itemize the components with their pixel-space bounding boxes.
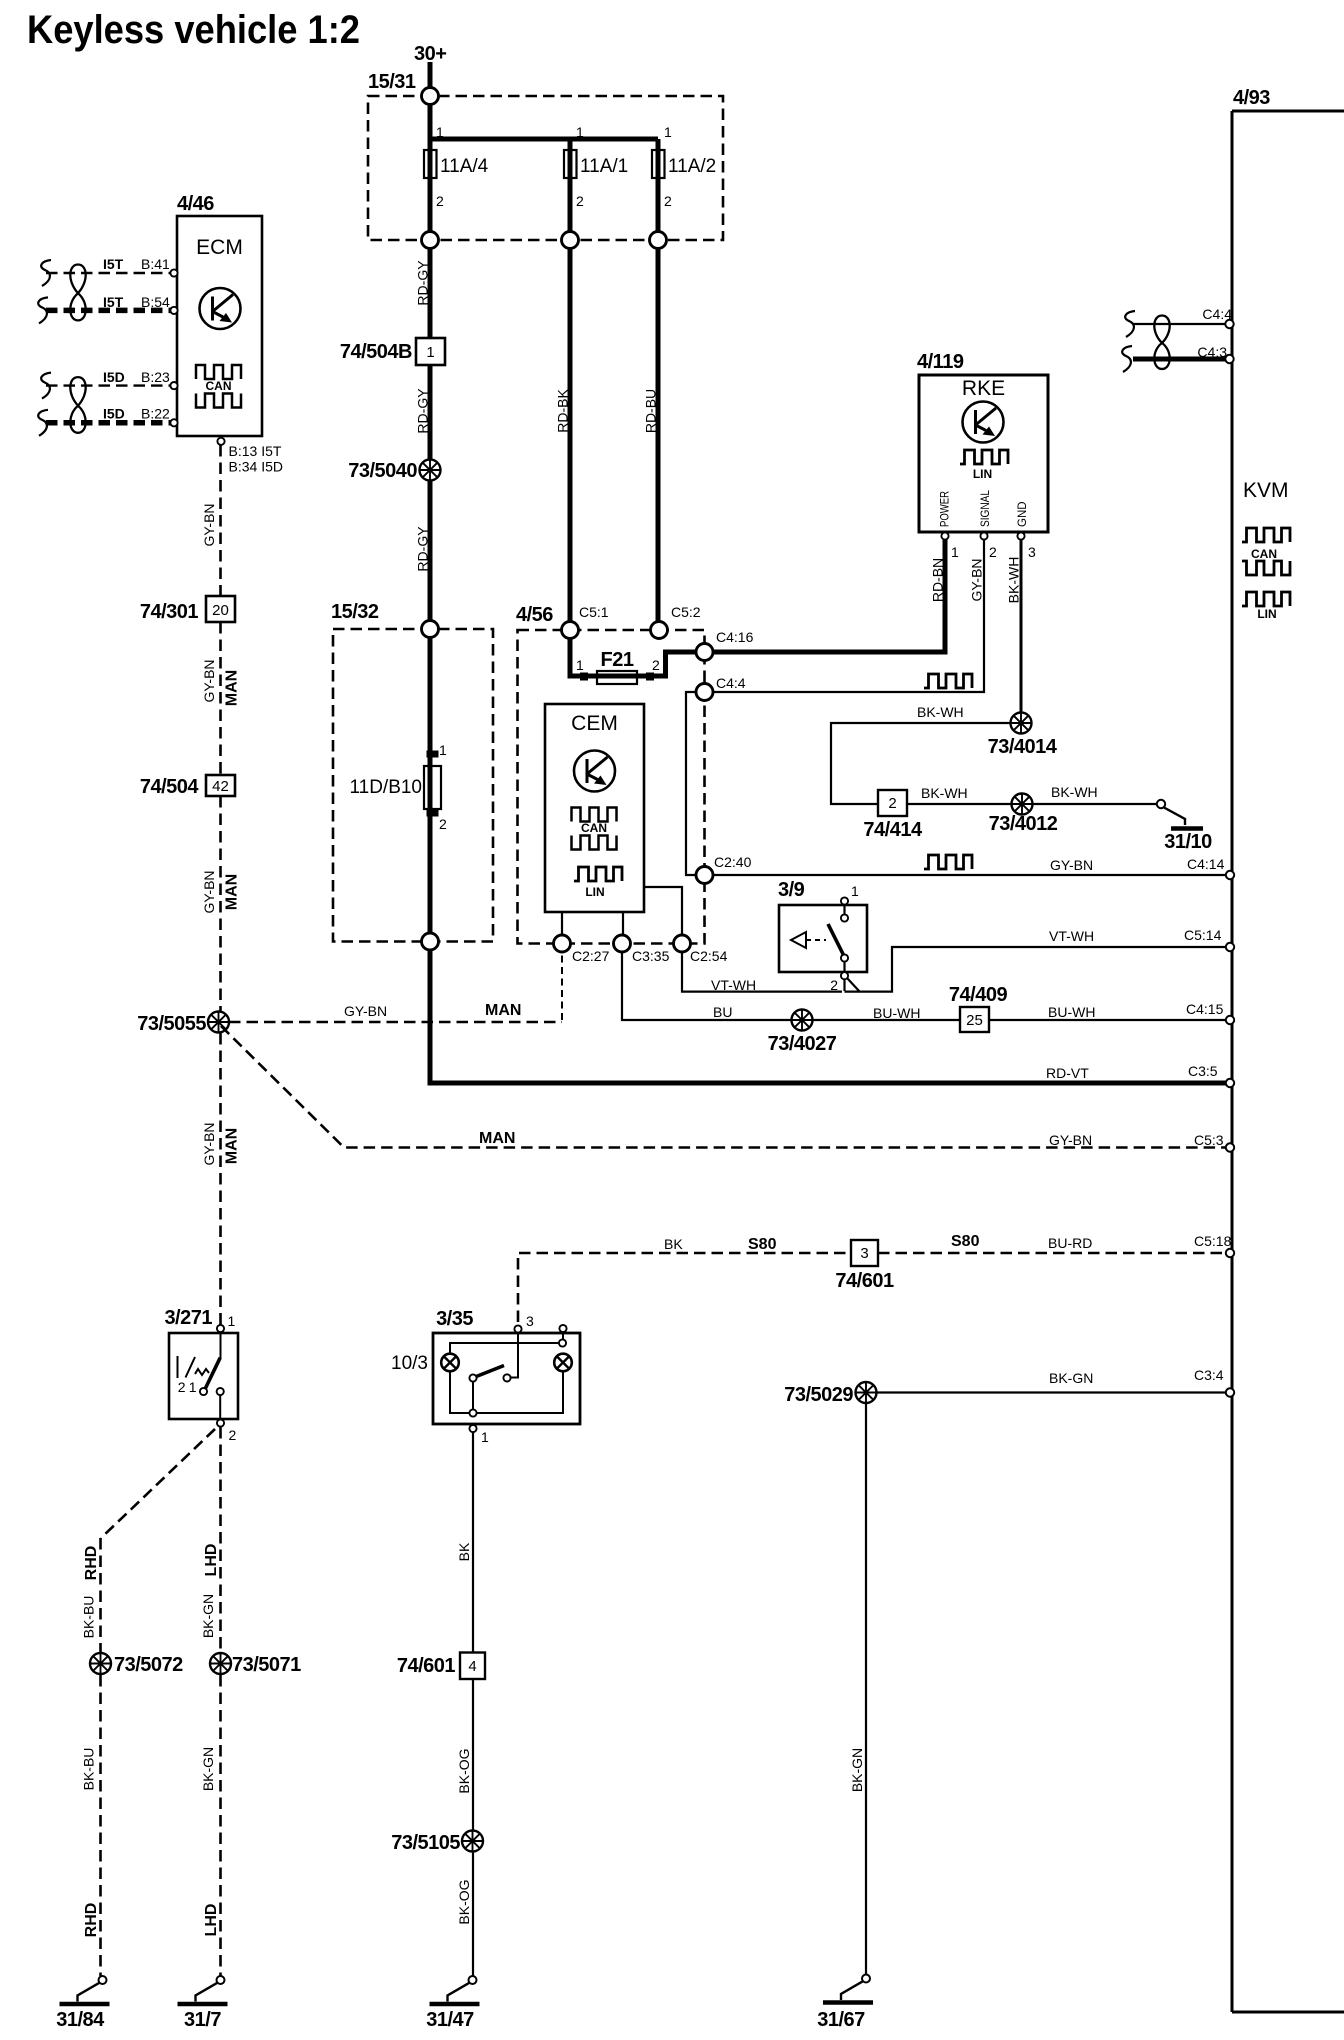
svg-text:I5T: I5T xyxy=(103,294,124,310)
svg-text:C4:14: C4:14 xyxy=(1187,856,1225,872)
svg-text:C5:14: C5:14 xyxy=(1184,927,1222,943)
svg-text:C4:15: C4:15 xyxy=(1186,1001,1224,1017)
svg-text:1: 1 xyxy=(481,1429,489,1445)
svg-text:10/3: 10/3 xyxy=(391,1353,428,1374)
svg-text:73/5055: 73/5055 xyxy=(137,1013,206,1035)
svg-text:POWER: POWER xyxy=(940,491,952,527)
svg-text:MAN: MAN xyxy=(224,874,241,910)
svg-text:C3:5: C3:5 xyxy=(1188,1063,1218,1079)
svg-text:RKE: RKE xyxy=(962,377,1005,400)
svg-text:1: 1 xyxy=(436,124,444,140)
svg-text:2: 2 xyxy=(888,795,896,812)
svg-text:CEM: CEM xyxy=(571,712,618,735)
svg-text:GY-BN: GY-BN xyxy=(1049,1132,1092,1148)
svg-text:3: 3 xyxy=(1028,544,1036,560)
svg-text:1: 1 xyxy=(664,124,672,140)
svg-text:73/5029: 73/5029 xyxy=(784,1384,853,1406)
svg-text:BK-WH: BK-WH xyxy=(1051,784,1098,800)
svg-text:2: 2 xyxy=(439,816,447,832)
svg-text:30+: 30+ xyxy=(414,43,446,65)
svg-text:I5D: I5D xyxy=(103,406,125,422)
svg-text:C3:4: C3:4 xyxy=(1194,1367,1224,1383)
svg-text:2: 2 xyxy=(229,1427,237,1443)
svg-text:4/46: 4/46 xyxy=(177,193,214,215)
svg-text:3/35: 3/35 xyxy=(436,1308,473,1330)
svg-text:MAN: MAN xyxy=(479,1130,515,1147)
svg-text:C4:3: C4:3 xyxy=(1197,344,1227,360)
svg-text:GY-BN: GY-BN xyxy=(969,558,985,601)
svg-text:4/56: 4/56 xyxy=(516,604,553,626)
svg-text:C3:35: C3:35 xyxy=(632,948,670,964)
svg-text:C2:40: C2:40 xyxy=(714,854,752,870)
svg-text:GND: GND xyxy=(1017,501,1029,527)
svg-text:Keyless vehicle 1:2: Keyless vehicle 1:2 xyxy=(27,8,360,52)
svg-text:BK-WH: BK-WH xyxy=(1006,557,1022,604)
svg-text:73/4027: 73/4027 xyxy=(768,1033,837,1055)
svg-text:1: 1 xyxy=(951,544,959,560)
svg-text:74/601: 74/601 xyxy=(397,1655,456,1677)
svg-text:BK: BK xyxy=(456,1542,472,1561)
svg-text:73/4014: 73/4014 xyxy=(988,736,1058,758)
svg-text:I5D: I5D xyxy=(103,369,125,385)
svg-text:BK-WH: BK-WH xyxy=(921,785,968,801)
svg-text:B:13 I5T: B:13 I5T xyxy=(229,443,282,459)
svg-text:CAN: CAN xyxy=(1251,547,1277,561)
svg-text:GY-BN: GY-BN xyxy=(344,1003,387,1019)
svg-text:BK-BU: BK-BU xyxy=(81,1596,97,1639)
svg-text:31/7: 31/7 xyxy=(184,2009,221,2031)
svg-text:BU-WH: BU-WH xyxy=(873,1005,920,1021)
svg-text:2: 2 xyxy=(436,193,444,209)
svg-text:2: 2 xyxy=(830,977,838,993)
svg-text:1: 1 xyxy=(228,1313,236,1329)
svg-text:1: 1 xyxy=(426,344,434,361)
svg-text:3/271: 3/271 xyxy=(164,1307,212,1329)
svg-text:MAN: MAN xyxy=(224,670,241,706)
svg-text:BK-GN: BK-GN xyxy=(849,1748,865,1792)
svg-text:GY-BN: GY-BN xyxy=(201,1122,217,1165)
svg-text:BK-GN: BK-GN xyxy=(200,1747,216,1791)
svg-text:RD-GY: RD-GY xyxy=(415,260,431,306)
svg-text:LHD: LHD xyxy=(203,1544,220,1577)
svg-text:74/601: 74/601 xyxy=(835,1270,894,1292)
svg-text:C4:16: C4:16 xyxy=(716,629,754,645)
svg-text:15/32: 15/32 xyxy=(331,601,379,623)
svg-text:LHD: LHD xyxy=(203,1904,220,1937)
svg-text:GY-BN: GY-BN xyxy=(1050,857,1093,873)
svg-text:C2:27: C2:27 xyxy=(572,948,610,964)
svg-text:11D/B10: 11D/B10 xyxy=(349,777,422,798)
svg-text:74/504: 74/504 xyxy=(140,776,200,798)
svg-text:4/119: 4/119 xyxy=(917,351,964,373)
svg-text:73/5040: 73/5040 xyxy=(348,460,417,482)
svg-text:3: 3 xyxy=(860,1245,868,1262)
svg-text:42: 42 xyxy=(212,778,229,795)
svg-text:B:34 I5D: B:34 I5D xyxy=(229,459,283,475)
svg-text:GY-BN: GY-BN xyxy=(201,870,217,913)
svg-text:MAN: MAN xyxy=(224,1128,241,1164)
svg-text:11A/1: 11A/1 xyxy=(580,156,628,177)
svg-text:LIN: LIN xyxy=(1257,607,1276,621)
svg-text:74/504B: 74/504B xyxy=(340,341,412,363)
svg-text:20: 20 xyxy=(212,602,229,619)
svg-text:2: 2 xyxy=(178,1379,186,1395)
svg-text:31/67: 31/67 xyxy=(817,2009,865,2031)
svg-text:73/5071: 73/5071 xyxy=(232,1654,301,1676)
svg-text:GY-BN: GY-BN xyxy=(201,503,217,546)
svg-text:74/301: 74/301 xyxy=(140,601,199,623)
svg-text:MAN: MAN xyxy=(485,1002,521,1019)
svg-text:C2:54: C2:54 xyxy=(690,948,728,964)
svg-text:ECM: ECM xyxy=(196,236,243,259)
svg-text:C5:2: C5:2 xyxy=(671,604,701,620)
svg-text:31/10: 31/10 xyxy=(1164,831,1212,853)
svg-text:B:23: B:23 xyxy=(141,369,170,385)
svg-text:RD-VT: RD-VT xyxy=(1046,1065,1089,1081)
svg-text:1: 1 xyxy=(576,124,584,140)
svg-text:1: 1 xyxy=(851,883,859,899)
svg-text:SIGNAL: SIGNAL xyxy=(980,489,992,527)
svg-text:BK-WH: BK-WH xyxy=(917,704,964,720)
svg-text:1: 1 xyxy=(576,657,584,673)
svg-text:2: 2 xyxy=(989,544,997,560)
svg-text:BK-GN: BK-GN xyxy=(200,1594,216,1638)
svg-text:B:22: B:22 xyxy=(141,406,170,422)
svg-text:KVM: KVM xyxy=(1243,479,1289,502)
svg-text:RD-BK: RD-BK xyxy=(555,389,571,433)
svg-text:C4:4: C4:4 xyxy=(1202,306,1232,322)
svg-text:73/5072: 73/5072 xyxy=(114,1654,183,1676)
svg-text:I5T: I5T xyxy=(103,256,124,272)
svg-text:BU-WH: BU-WH xyxy=(1048,1004,1095,1020)
svg-text:BK-OG: BK-OG xyxy=(456,1748,472,1793)
svg-text:74/414: 74/414 xyxy=(863,819,923,841)
svg-text:11A/4: 11A/4 xyxy=(440,156,489,177)
svg-text:F21: F21 xyxy=(601,649,634,671)
svg-text:74/409: 74/409 xyxy=(949,984,1008,1006)
svg-text:1: 1 xyxy=(189,1379,197,1395)
svg-text:73/5105: 73/5105 xyxy=(391,1832,460,1854)
svg-text:CAN: CAN xyxy=(581,821,607,835)
svg-text:3: 3 xyxy=(526,1313,534,1329)
svg-text:CAN: CAN xyxy=(206,379,232,393)
svg-text:C5:1: C5:1 xyxy=(579,604,609,620)
svg-text:RD-GY: RD-GY xyxy=(415,526,431,572)
svg-text:2: 2 xyxy=(652,657,660,673)
svg-text:BU-RD: BU-RD xyxy=(1048,1235,1092,1251)
svg-text:GY-BN: GY-BN xyxy=(201,659,217,702)
svg-text:25: 25 xyxy=(966,1012,983,1029)
svg-text:RHD: RHD xyxy=(83,1903,100,1938)
svg-text:BU: BU xyxy=(713,1004,732,1020)
svg-text:BK: BK xyxy=(664,1236,683,1252)
svg-text:LIN: LIN xyxy=(585,885,604,899)
svg-text:73/4012: 73/4012 xyxy=(989,813,1058,835)
svg-text:31/47: 31/47 xyxy=(426,2009,474,2031)
svg-text:3/9: 3/9 xyxy=(778,879,805,901)
svg-text:BK-OG: BK-OG xyxy=(456,1879,472,1924)
svg-text:S80: S80 xyxy=(951,1233,980,1250)
svg-text:B:54: B:54 xyxy=(141,294,170,310)
svg-text:2: 2 xyxy=(576,193,584,209)
svg-text:4: 4 xyxy=(468,1658,476,1675)
svg-text:C5:3: C5:3 xyxy=(1194,1132,1224,1148)
svg-text:S80: S80 xyxy=(748,1236,777,1253)
svg-text:BK-GN: BK-GN xyxy=(1049,1370,1093,1386)
svg-text:C4:4: C4:4 xyxy=(716,675,746,691)
svg-text:RD-BU: RD-BU xyxy=(643,389,659,433)
svg-text:RHD: RHD xyxy=(83,1546,100,1581)
svg-text:4/93: 4/93 xyxy=(1233,87,1270,109)
svg-text:C5:18: C5:18 xyxy=(1194,1233,1232,1249)
svg-text:VT-WH: VT-WH xyxy=(711,977,756,993)
svg-text:RD-GY: RD-GY xyxy=(415,388,431,434)
svg-text:VT-WH: VT-WH xyxy=(1049,928,1094,944)
svg-text:31/84: 31/84 xyxy=(56,2009,105,2031)
svg-text:LIN: LIN xyxy=(973,467,992,481)
svg-text:RD-BN: RD-BN xyxy=(930,558,946,602)
svg-text:15/31: 15/31 xyxy=(368,71,416,93)
svg-text:2: 2 xyxy=(664,193,672,209)
svg-text:B:41: B:41 xyxy=(141,256,170,272)
svg-text:BK-BU: BK-BU xyxy=(81,1748,97,1791)
svg-text:1: 1 xyxy=(439,742,447,758)
svg-text:11A/2: 11A/2 xyxy=(668,156,716,177)
